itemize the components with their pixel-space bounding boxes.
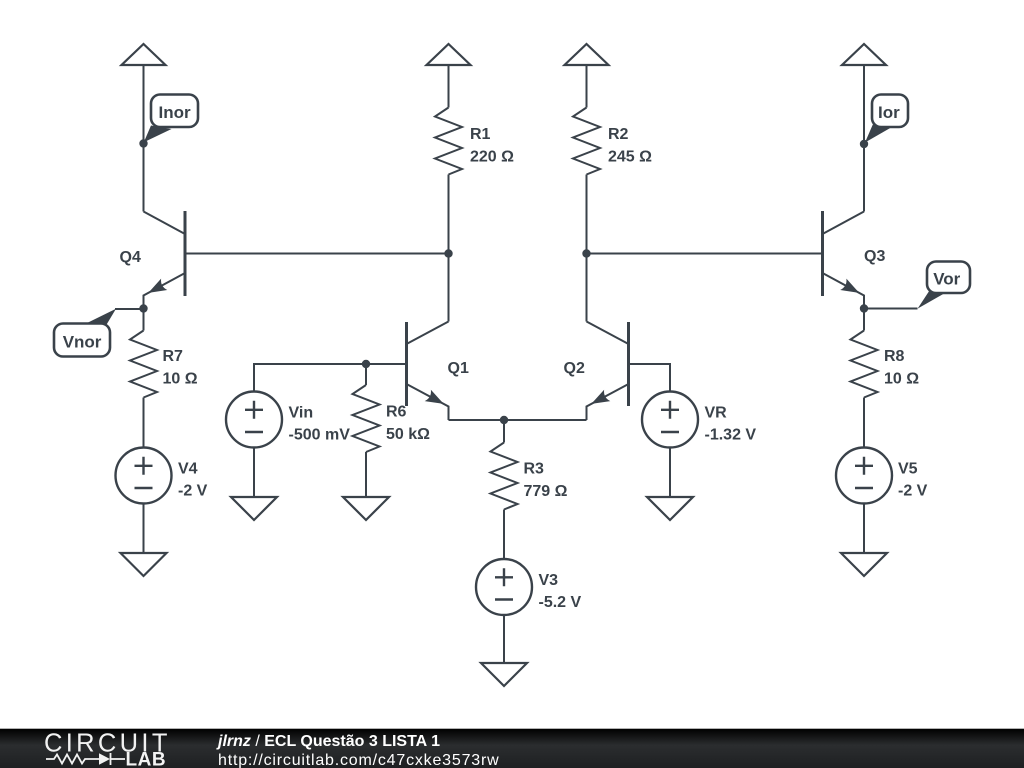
flag Ior (current probe label): [865, 125, 891, 143]
ground (below V5): [841, 553, 887, 576]
svg-text:R6: R6: [386, 404, 407, 421]
node: emitter tail junction: [500, 416, 508, 424]
wire: VCC to R1: [448, 65, 450, 108]
svg-text:R1: R1: [470, 126, 491, 143]
node: Q3 emitter / Vor / R8 junction: [860, 304, 868, 312]
node: Inor tap on Q4 collector: [139, 139, 147, 147]
wire: Q1 emitter to tail node: [449, 419, 505, 421]
svg-text:Inor: Inor: [159, 103, 191, 122]
wire: Vin to ground: [253, 448, 255, 498]
svg-text:Ior: Ior: [878, 103, 900, 122]
wire: node down to Q1 collector: [448, 254, 450, 322]
svg-text:R3: R3: [524, 461, 545, 478]
wire: Q4 base to R1 node: [185, 253, 449, 255]
svg-text:-5.2 V: -5.2 V: [539, 594, 582, 611]
wire: input node to Vin source: [254, 364, 366, 392]
svg-text:V4: V4: [178, 461, 198, 478]
svg-text:R8: R8: [884, 348, 905, 365]
wire: VCC to R2: [586, 65, 588, 108]
flag Vor (voltage probe label): [864, 262, 970, 309]
wire: R1 to collector node: [448, 175, 450, 254]
svg-text:-2 V: -2 V: [898, 483, 928, 500]
voltage source Vin: [226, 392, 282, 448]
power supply VCC arrow (R1 rail): [427, 44, 471, 65]
node: R1 / Q4 base / Q1 collector junction: [444, 249, 452, 257]
svg-text:-500 mV: -500 mV: [289, 427, 351, 444]
svg-text:50 kΩ: 50 kΩ: [386, 426, 430, 443]
node: R2 / Q3 base / Q2 collector junction: [582, 249, 590, 257]
svg-text:http://circuitlab.com/c47cxke3: http://circuitlab.com/c47cxke3573rw: [218, 752, 499, 768]
svg-text:220 Ω: 220 Ω: [470, 149, 514, 166]
svg-text:-2 V: -2 V: [178, 483, 208, 500]
svg-text:Vor: Vor: [933, 270, 960, 289]
node: Vin / R6 / Q1 base junction: [362, 360, 370, 368]
power supply VCC arrow (Q4 collector rail): [122, 44, 166, 65]
resistor R2: [573, 108, 600, 175]
svg-text:jlrnz / ECL Questão 3 LISTA 1: jlrnz / ECL Questão 3 LISTA 1: [216, 733, 440, 750]
svg-text:LAB: LAB: [126, 750, 167, 768]
ground (below V4): [121, 553, 167, 576]
svg-text:-1.32 V: -1.32 V: [705, 427, 757, 444]
flag Inor (current probe label): [144, 126, 172, 143]
ground (below V3): [481, 663, 527, 686]
ground (below VR): [647, 497, 693, 520]
CircuitLab logo circuit glyph (resistor + diode): [46, 753, 125, 765]
ground (below R6): [343, 497, 389, 520]
ground (below Vin): [231, 497, 277, 520]
svg-text:10 Ω: 10 Ω: [163, 371, 198, 388]
svg-text:245 Ω: 245 Ω: [608, 149, 652, 166]
resistor R1: [435, 108, 462, 175]
wire: V4 to ground: [143, 504, 145, 554]
svg-text:V5: V5: [898, 461, 918, 478]
wire: Q2 emitter to tail node: [504, 419, 587, 421]
transistor Q1 (NPN): [407, 322, 449, 421]
power supply VCC arrow (Q3 collector rail): [842, 44, 886, 65]
transistor Q4 (NPN): [144, 211, 186, 309]
svg-text:Vin: Vin: [289, 405, 314, 422]
wire: V5 to ground: [863, 504, 865, 554]
svg-text:Q1: Q1: [448, 360, 469, 377]
resistor R3: [491, 420, 518, 559]
svg-text:V3: V3: [539, 572, 559, 589]
svg-text:Q3: Q3: [864, 248, 885, 265]
voltage source VR: [642, 392, 698, 448]
node: Ior tap on Q3 collector: [860, 140, 868, 148]
svg-text:VR: VR: [705, 405, 728, 422]
svg-text:R7: R7: [163, 348, 184, 365]
footer bar: [0, 729, 1024, 768]
wire: Q2 base to VR source: [629, 364, 671, 392]
resistor R6: [353, 364, 380, 497]
transistor Q3 (NPN): [823, 211, 865, 309]
voltage source V5: [836, 448, 892, 504]
svg-text:779 Ω: 779 Ω: [524, 483, 568, 500]
voltage source V4: [116, 448, 172, 504]
power supply VCC arrow (R2 rail): [565, 44, 609, 65]
wire: VR to ground: [669, 448, 671, 498]
voltage source V3: [476, 559, 532, 615]
wire: R2 to collector node: [586, 175, 588, 254]
svg-text:Q2: Q2: [564, 360, 585, 377]
svg-text:Q4: Q4: [120, 249, 141, 266]
resistor R8: [851, 309, 878, 448]
wire: Q1 base to input node: [366, 363, 407, 365]
node: Q4 emitter / Vnor / R7 junction: [139, 304, 147, 312]
wire: VCC rail down to Q4 collector: [143, 65, 145, 212]
svg-text:Vnor: Vnor: [63, 333, 102, 352]
flag Vnor (voltage probe label): [54, 309, 144, 357]
svg-text:10 Ω: 10 Ω: [884, 371, 919, 388]
transistor Q2 (NPN): [587, 322, 629, 421]
resistor R7: [130, 309, 157, 448]
wire: V3 to ground: [503, 615, 505, 663]
wire: VCC rail down to Q3 collector: [863, 65, 865, 212]
wire: node down to Q2 collector: [586, 254, 588, 322]
wire: node to Q3 base: [587, 253, 823, 255]
svg-text:R2: R2: [608, 126, 629, 143]
